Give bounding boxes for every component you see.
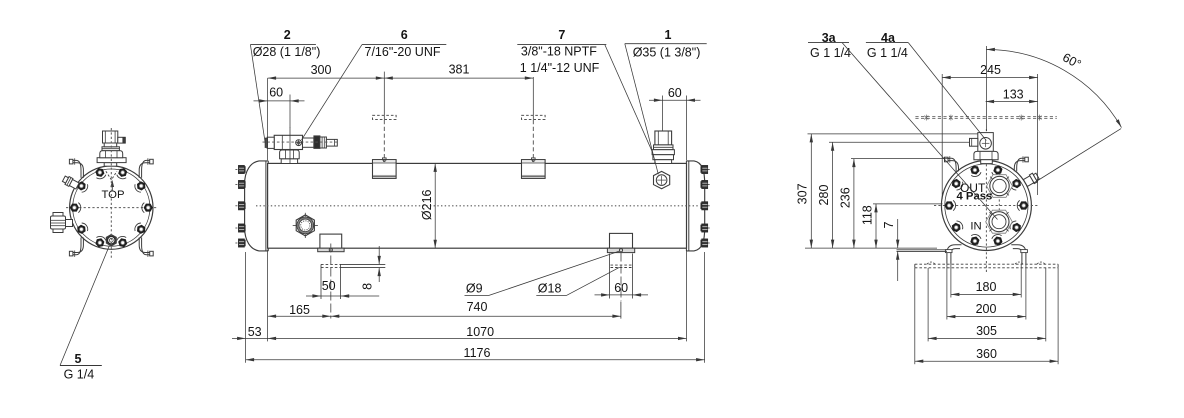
svg-text:245: 245 (980, 63, 1001, 77)
svg-text:180: 180 (976, 280, 997, 294)
svg-text:6: 6 (401, 28, 408, 42)
svg-text:IN: IN (970, 221, 981, 233)
svg-text:118: 118 (861, 205, 875, 225)
svg-text:G 1 1/4: G 1 1/4 (867, 46, 908, 60)
svg-text:G 1 1/4: G 1 1/4 (810, 46, 851, 60)
svg-text:2: 2 (284, 28, 291, 42)
svg-text:3/8"-18 NPTF: 3/8"-18 NPTF (521, 45, 597, 59)
svg-text:Ø35 (1 3/8"): Ø35 (1 3/8") (633, 45, 701, 59)
svg-text:7: 7 (558, 28, 565, 42)
svg-text:360: 360 (976, 347, 997, 361)
svg-text:1 1/4"-12 UNF: 1 1/4"-12 UNF (520, 61, 600, 75)
svg-text:4 Pass: 4 Pass (957, 191, 993, 203)
svg-text:50: 50 (322, 279, 336, 293)
svg-text:G 1/4: G 1/4 (64, 368, 95, 382)
svg-text:307: 307 (796, 183, 810, 204)
svg-text:200: 200 (976, 302, 997, 316)
svg-text:Ø28 (1 1/8"): Ø28 (1 1/8") (253, 45, 321, 59)
svg-text:5: 5 (75, 352, 82, 366)
svg-text:280: 280 (817, 185, 831, 206)
svg-text:60: 60 (668, 86, 682, 100)
svg-text:Ø18: Ø18 (538, 281, 562, 295)
svg-text:236: 236 (838, 187, 852, 208)
svg-text:7/16"-20 UNF: 7/16"-20 UNF (365, 45, 441, 59)
svg-text:1070: 1070 (466, 325, 494, 339)
svg-text:305: 305 (976, 324, 997, 338)
svg-text:740: 740 (467, 300, 488, 314)
svg-text:TOP: TOP (101, 189, 124, 201)
svg-text:53: 53 (248, 325, 262, 339)
svg-text:133: 133 (1003, 88, 1024, 102)
svg-text:165: 165 (289, 303, 310, 317)
svg-text:1176: 1176 (464, 346, 491, 360)
svg-text:7: 7 (882, 221, 896, 228)
svg-text:1: 1 (665, 28, 672, 42)
svg-text:300: 300 (311, 63, 332, 77)
svg-text:Ø216: Ø216 (420, 189, 434, 220)
svg-text:Ø9: Ø9 (466, 281, 483, 295)
svg-text:8: 8 (360, 283, 374, 290)
svg-text:60: 60 (269, 85, 283, 99)
svg-text:60: 60 (614, 281, 628, 295)
svg-text:381: 381 (449, 63, 470, 77)
